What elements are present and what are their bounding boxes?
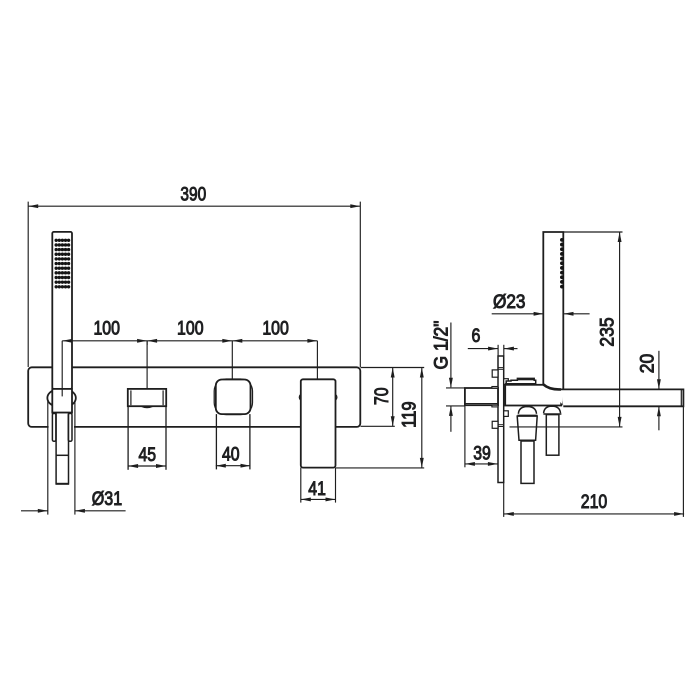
- handshower lower handle: [56, 413, 68, 484]
- knob 40: side bulges (behind): [214, 379, 252, 415]
- holder sleeve below ring: [52, 389, 72, 413]
- right hump (shower connection): [544, 406, 561, 413]
- dim 70 extension lines: [361, 367, 425, 369]
- dim 210 extensions: [503, 483, 505, 517]
- plate joint ticks: [498, 367, 504, 369]
- svg-text:70: 70: [371, 387, 393, 405]
- dim 6 lines: [468, 348, 498, 350]
- left tapered pipe: [517, 416, 537, 440]
- mixer valve body: [505, 385, 561, 406]
- cover plate lip (dark band): [517, 378, 534, 380]
- cartridge cover plate (top): [505, 378, 536, 383]
- dim 235 top extension: [564, 231, 623, 233]
- svg-text:390: 390: [180, 183, 206, 205]
- svg-text:100: 100: [177, 318, 204, 340]
- horizontal bar (20mm): [561, 389, 683, 406]
- dim 119 line: [421, 368, 423, 468]
- lever handle 45: top cap band: [128, 389, 166, 406]
- right outlet pipe: [546, 415, 559, 456]
- front-side nut lower: [504, 411, 509, 417]
- svg-text:100: 100: [93, 318, 120, 340]
- holder clip right: [68, 413, 72, 441]
- spout body: [301, 379, 336, 467]
- dim D31 line: [21, 510, 48, 512]
- neck curve into bar: [543, 384, 561, 389]
- handshower column (side): [543, 232, 563, 405]
- dim 390 line: [28, 205, 360, 207]
- inlet flange upper: [492, 387, 498, 389]
- svg-text:20: 20: [637, 354, 659, 374]
- dim 41 line: [301, 498, 336, 500]
- left hump (spout connection): [518, 407, 536, 414]
- dim 70 line: [392, 368, 394, 427]
- svg-text:119: 119: [399, 401, 421, 428]
- dim 40 line: [216, 465, 251, 467]
- spray dots (side): [560, 238, 564, 289]
- dim 100 extension into holder: [61, 341, 63, 397]
- knob 40: extension lines down: [215, 414, 217, 469]
- dim 45 line: [128, 465, 166, 467]
- dim 100 extension lines: [146, 341, 148, 345]
- handle bottom edge: [56, 483, 69, 485]
- dim G1/2 leader: [450, 323, 452, 388]
- holder clip left: [52, 413, 56, 441]
- knob 40: rounded square face: [216, 380, 251, 415]
- svg-text:G 1/2": G 1/2": [430, 320, 452, 369]
- holder joint line: [52, 412, 72, 414]
- wall bar body: [28, 367, 360, 427]
- svg-text:Ø31: Ø31: [92, 488, 122, 510]
- dim 390 extension lines: [27, 202, 29, 367]
- svg-text:40: 40: [222, 444, 240, 466]
- svg-text:39: 39: [473, 443, 491, 465]
- svg-text:41: 41: [308, 478, 326, 500]
- right joint line: [543, 413, 561, 415]
- svg-text:6: 6: [472, 325, 481, 347]
- lever handle 45: stem extension line: [146, 341, 148, 389]
- dim D23 lines: [492, 313, 544, 315]
- lever handle 45: side/extension lines down: [127, 406, 129, 470]
- dim 119 bottom extension: [336, 467, 424, 469]
- dim 20 line: [658, 351, 660, 389]
- bar end cap line: [680, 389, 682, 406]
- holder bracket silhouette (occludes body edge): [49, 401, 74, 514]
- front-side nut upper: [504, 379, 509, 385]
- dim 235 line: [619, 232, 621, 427]
- handshower holder ring: [47, 388, 76, 407]
- spray face dots: [55, 239, 71, 289]
- svg-text:45: 45: [139, 444, 157, 466]
- dim 6 extension lines: [497, 345, 499, 356]
- spout: extension lines down to 41 dim: [300, 468, 302, 503]
- wall-side nut lower: [492, 421, 498, 428]
- handshower body/handle bar: [52, 232, 72, 389]
- inlet connection pipe (G 1/2): [465, 388, 498, 405]
- dim 100 line with arrows: [62, 340, 317, 342]
- dim 39 extension: [464, 406, 466, 467]
- wall-side nut upper: [492, 370, 498, 377]
- wall plate (escutcheon, 6mm): [498, 356, 504, 483]
- dim 210 line: [504, 513, 684, 515]
- spout: side bulges (behind): [299, 390, 337, 405]
- svg-text:Ø23: Ø23: [493, 291, 526, 313]
- dim 235 bottom extension: [510, 426, 623, 428]
- left outlet pipe: [521, 441, 534, 483]
- lever handle 45: under-cap arc: [141, 406, 153, 407]
- svg-text:100: 100: [262, 318, 289, 340]
- knob 40: stem extension line: [231, 341, 233, 380]
- dim 39 line: [465, 463, 498, 465]
- handle joint line: [56, 454, 68, 456]
- svg-text:210: 210: [581, 491, 608, 513]
- dim D31 extension lines: [47, 401, 49, 515]
- spout: stem extension line: [316, 341, 318, 380]
- left joint line: [517, 414, 537, 416]
- svg-text:235: 235: [597, 317, 619, 347]
- inlet flange lower: [492, 405, 498, 407]
